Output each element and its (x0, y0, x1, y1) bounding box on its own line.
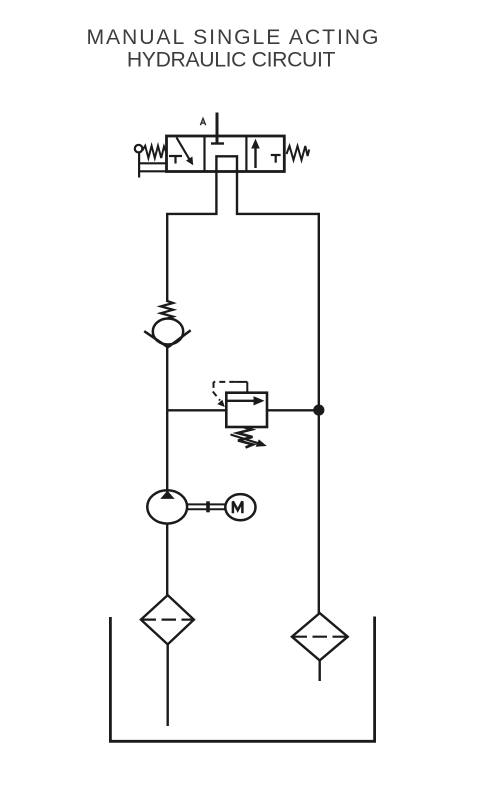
check valve CV1 ball (153, 319, 183, 345)
motor M1 circle (225, 494, 255, 520)
left return spring (142, 146, 166, 158)
valve V1 right envelope blocked port T (271, 155, 281, 163)
svg-text:HYDRAULIC CIRCUIT: HYDRAULIC CIRCUIT (127, 48, 336, 71)
relief valve RV1 pilot line (213, 382, 248, 401)
filter F2 element dashed (293, 636, 348, 638)
junction node dot (313, 405, 324, 416)
shaft coupling tick (206, 501, 210, 512)
tank reservoir (110, 617, 374, 742)
filter F2 diamond (292, 613, 348, 660)
valve V1 center envelope P-T connection (216, 156, 237, 171)
svg-text:MANUAL SINGLE ACTING: MANUAL SINGLE ACTING (86, 26, 380, 49)
filter F1 element dashed (142, 618, 194, 620)
motor M1 label (233, 501, 243, 513)
node A label (200, 118, 205, 125)
valve V1 left envelope diagonal arrow (177, 138, 194, 166)
valve V1 right envelope up arrow (251, 139, 260, 168)
wire relief junction to pump (166, 410, 168, 492)
wire check valve to relief junction (166, 345, 168, 410)
wire pump to left filter (166, 524, 168, 596)
pump P1 flow triangle (160, 491, 174, 499)
right return spring (287, 146, 310, 160)
directional control valve V1 envelope (167, 136, 285, 172)
check valve CV1 spring (161, 301, 173, 319)
manual push button actuator (135, 145, 167, 178)
pump shaft (187, 504, 226, 509)
title (86, 26, 380, 72)
relief valve RV1 spring arrowhead (256, 439, 267, 446)
wire left filter into tank (166, 644, 168, 726)
relief valve RV1 spring (231, 427, 260, 448)
wire valve left outlet to left branch (167, 172, 216, 303)
filter F1 diamond (141, 595, 194, 644)
wire left line into relief valve (167, 409, 226, 411)
wire relief valve to right line (267, 409, 319, 411)
relief valve RV1 body (226, 393, 267, 427)
valve V1 center envelope blocked port A bar (211, 142, 224, 144)
relief valve RV1 flow arrow (228, 396, 265, 405)
relief valve RV1 pilot arrowhead (217, 400, 225, 407)
valve V1 left envelope blocked port T (169, 156, 182, 164)
pump P1 circle (147, 490, 187, 523)
port A line (216, 113, 219, 144)
wire right filter stub (319, 660, 321, 681)
check valve CV1 seat (144, 330, 191, 347)
wire valve right outlet to right branch (237, 172, 319, 411)
wire right line to right filter (318, 410, 320, 614)
